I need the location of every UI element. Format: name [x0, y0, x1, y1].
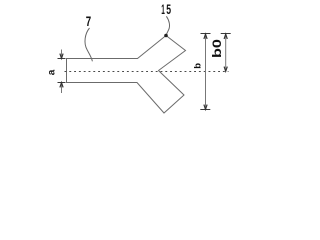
dim b extension tick bottom — [200, 109, 210, 111]
dim a extension tick bottom — [58, 82, 66, 84]
leader line to 7 — [85, 28, 92, 61]
dim a arrow up — [60, 83, 63, 88]
dim b extension tick top — [201, 33, 211, 35]
dim b arrow up — [204, 34, 207, 39]
dim a extension tick top — [58, 58, 66, 60]
dim b arrow down — [204, 105, 207, 110]
svg-text:7: 7 — [86, 14, 91, 30]
part outline: forked plate 15 — [67, 36, 186, 114]
svg-text:b0: b0 — [210, 39, 224, 58]
svg-text:b: b — [192, 63, 203, 69]
dim b0 extension tick top — [221, 33, 231, 35]
dim b0 line — [225, 34, 227, 71]
dim b line — [205, 34, 207, 109]
dim b0 arrow up — [224, 34, 227, 39]
dim a arrow down — [60, 54, 63, 59]
centerline (dashed axis) — [65, 71, 229, 73]
svg-text:1: 1 — [161, 2, 165, 18]
leader line to 15 — [166, 16, 169, 34]
dim b0 arrow down — [224, 67, 227, 72]
dim a line below — [61, 83, 63, 94]
dim a line above — [61, 50, 63, 59]
svg-text:5: 5 — [166, 2, 171, 18]
svg-text:a: a — [47, 69, 58, 75]
leader dot at branch tip — [164, 34, 168, 38]
